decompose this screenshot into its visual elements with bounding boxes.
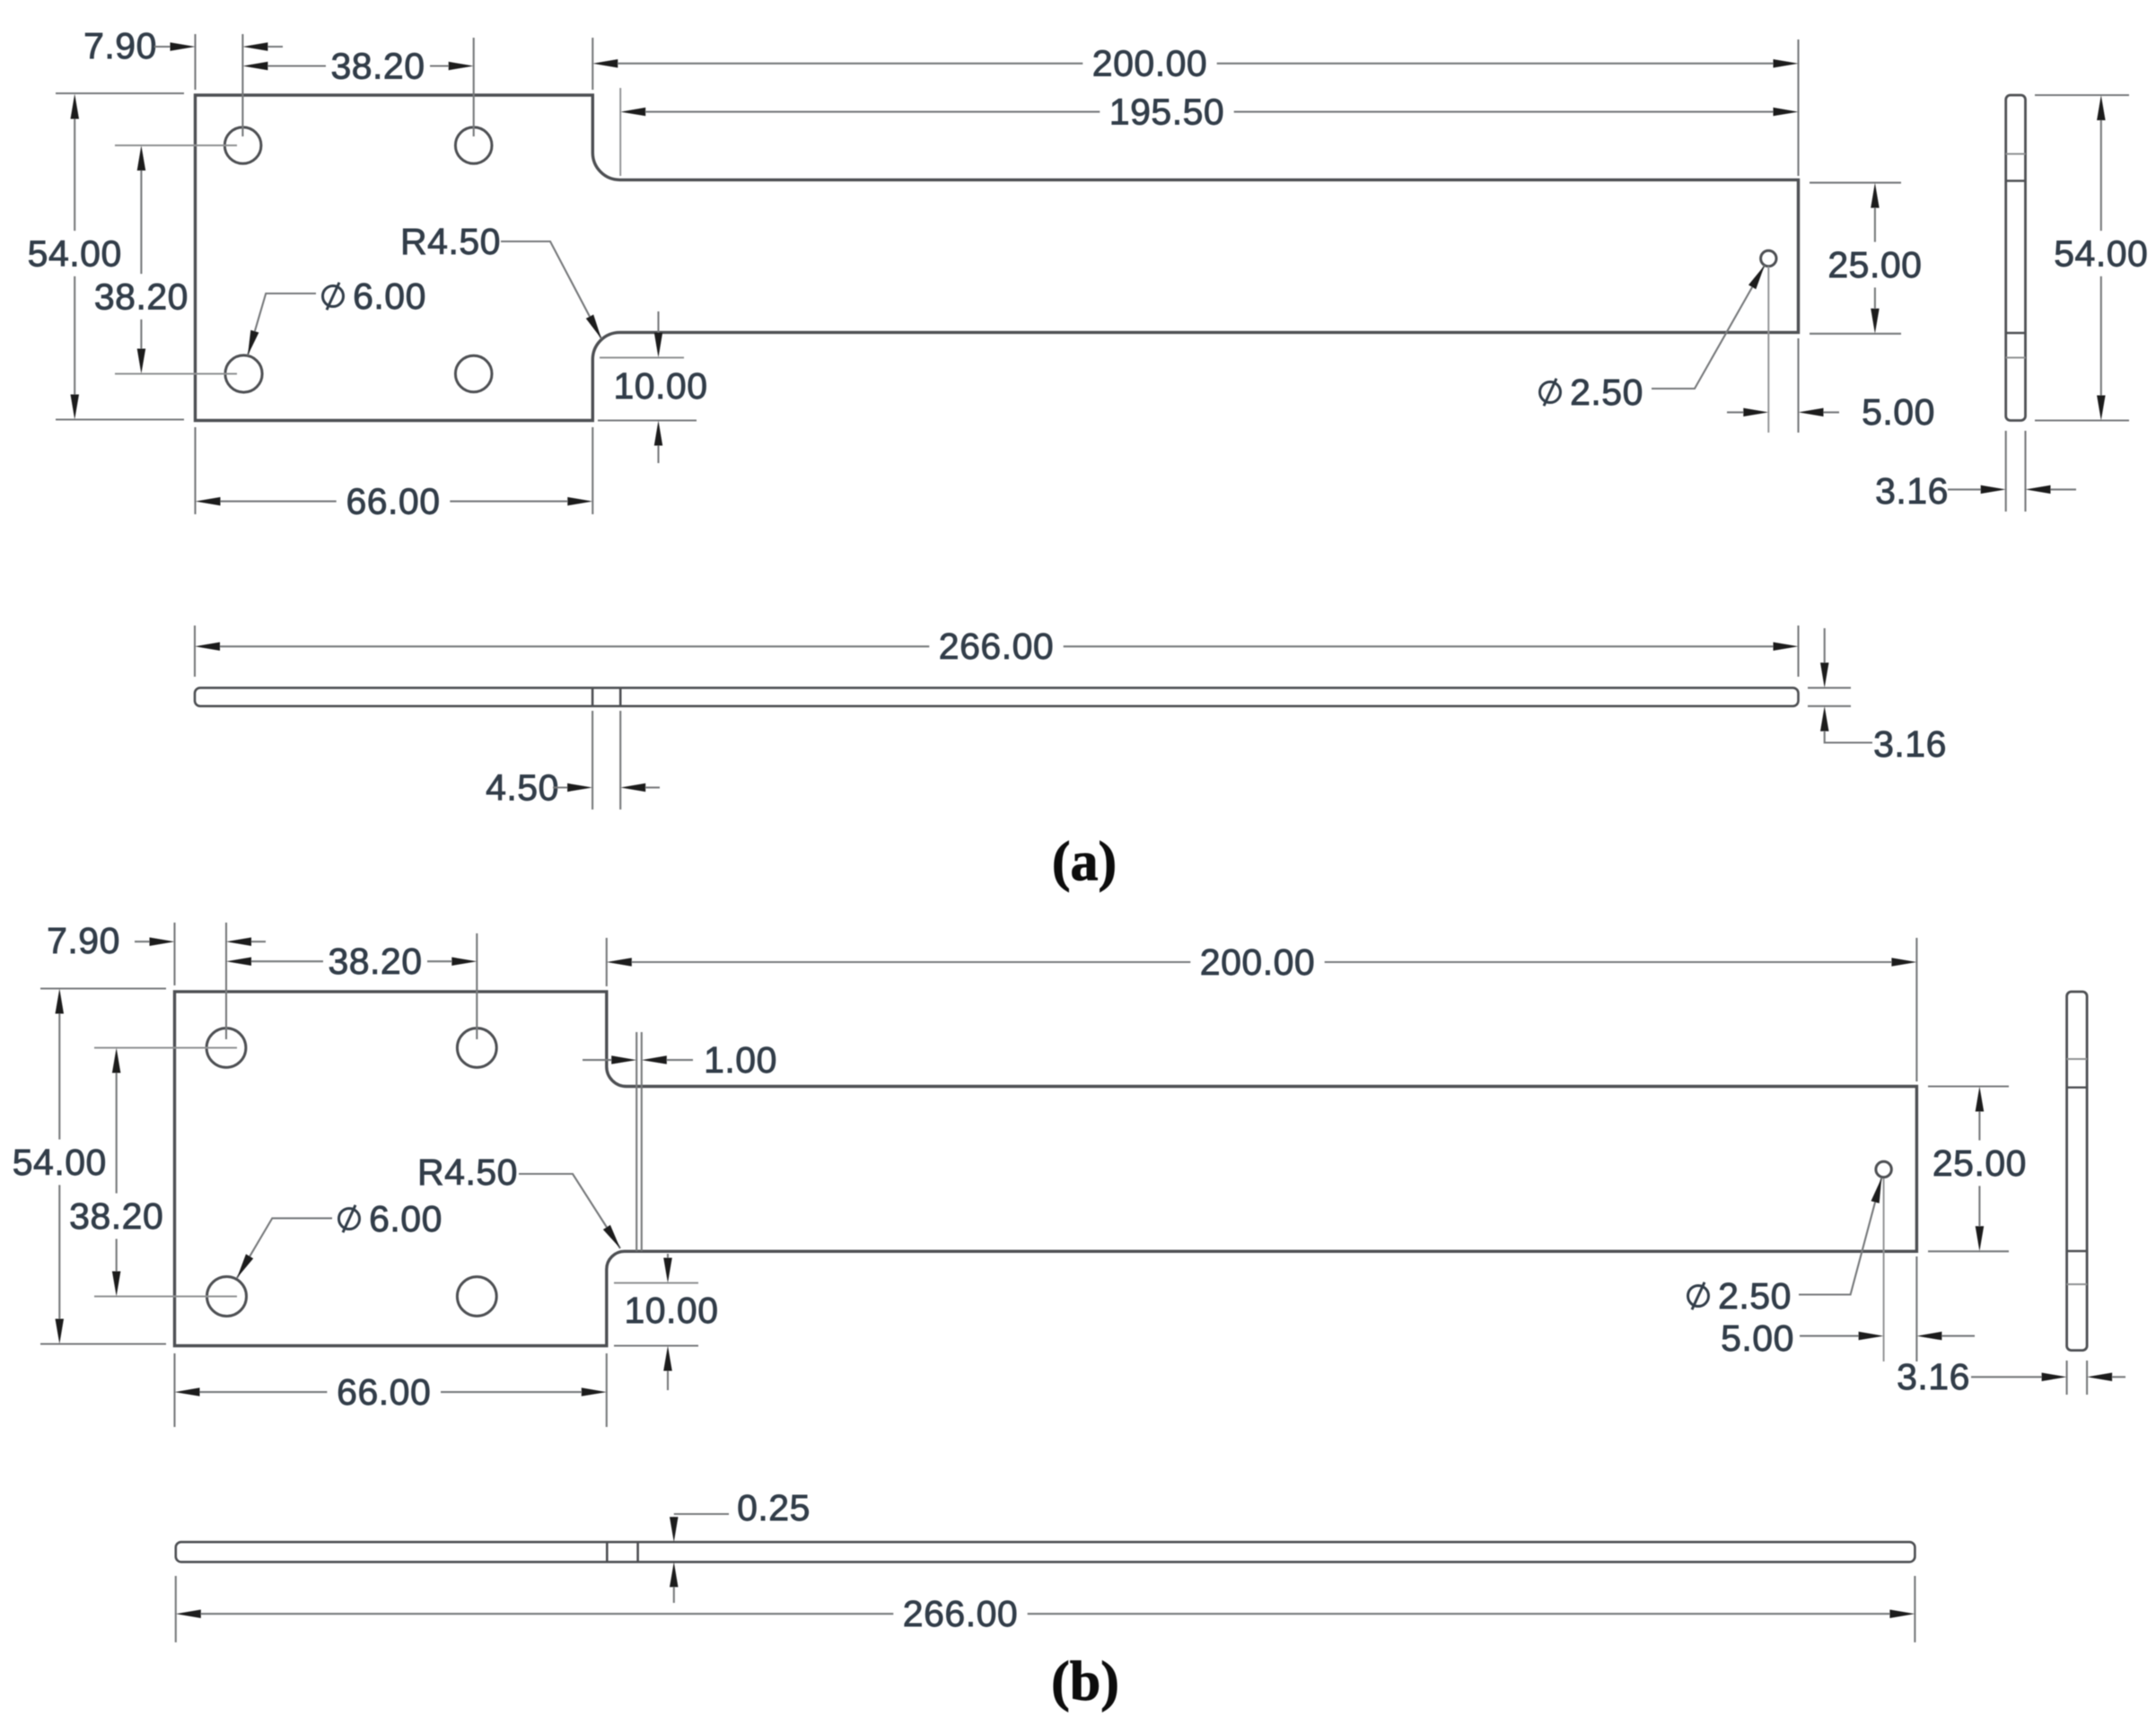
- svg-text:266.00: 266.00: [903, 1593, 1018, 1634]
- svg-text:10.00: 10.00: [613, 365, 707, 407]
- svg-text:38.20: 38.20: [330, 46, 425, 87]
- svg-text:3.16: 3.16: [1875, 470, 1949, 512]
- svg-text:0.25: 0.25: [737, 1487, 811, 1528]
- svg-text:6.00: 6.00: [369, 1198, 443, 1239]
- svg-text:(a): (a): [1052, 832, 1117, 893]
- svg-text:3.16: 3.16: [1897, 1356, 1970, 1397]
- svg-text:25.00: 25.00: [1933, 1142, 2027, 1184]
- svg-text:5.00: 5.00: [1721, 1317, 1794, 1359]
- svg-text:195.50: 195.50: [1109, 92, 1224, 133]
- svg-text:2.50: 2.50: [1718, 1275, 1792, 1317]
- svg-text:R4.50: R4.50: [400, 221, 501, 262]
- svg-text:38.20: 38.20: [69, 1195, 163, 1237]
- svg-text:6.00: 6.00: [353, 276, 426, 317]
- svg-text:54.00: 54.00: [13, 1142, 107, 1183]
- svg-text:5.00: 5.00: [1862, 391, 1935, 433]
- svg-text:4.50: 4.50: [486, 767, 559, 809]
- svg-text:7.90: 7.90: [83, 25, 157, 66]
- svg-text:(b): (b): [1051, 1651, 1119, 1712]
- svg-text:54.00: 54.00: [28, 232, 122, 274]
- svg-text:66.00: 66.00: [346, 481, 440, 522]
- svg-text:25.00: 25.00: [1827, 244, 1922, 285]
- svg-text:54.00: 54.00: [2054, 232, 2148, 274]
- svg-text:3.16: 3.16: [1873, 723, 1947, 765]
- svg-text:38.20: 38.20: [94, 276, 188, 317]
- svg-text:2.50: 2.50: [1570, 372, 1643, 413]
- svg-text:66.00: 66.00: [337, 1371, 431, 1413]
- svg-text:200.00: 200.00: [1092, 43, 1207, 84]
- svg-text:10.00: 10.00: [624, 1290, 718, 1331]
- svg-text:200.00: 200.00: [1200, 941, 1315, 983]
- svg-text:1.00: 1.00: [704, 1039, 777, 1081]
- svg-text:266.00: 266.00: [939, 626, 1054, 667]
- svg-text:38.20: 38.20: [328, 941, 422, 982]
- svg-text:R4.50: R4.50: [417, 1151, 518, 1193]
- svg-text:7.90: 7.90: [47, 920, 120, 961]
